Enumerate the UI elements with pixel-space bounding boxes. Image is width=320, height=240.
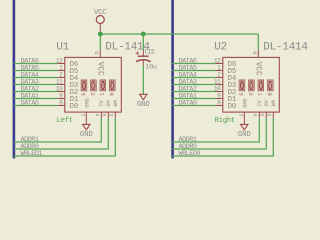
- pin WR (pin 3) of U2: [272, 112, 274, 118]
- svg-text:12: 12: [56, 58, 63, 65]
- svg-text:D0: D0: [70, 103, 79, 111]
- ground symbol under U1: [83, 124, 90, 129]
- pin A1 (pin 4) of U1: [100, 112, 102, 118]
- 14-segment display digit 2 of U2: [248, 80, 254, 92]
- svg-text:7: 7: [237, 113, 244, 116]
- frame border left bus line: [13, 0, 16, 158]
- wire net DATA5 to U2 pin 1: [172, 70, 216, 72]
- pin A0 (pin 5) of U1: [107, 112, 109, 118]
- 14-segment display digit 0 of U2: [267, 80, 273, 92]
- wire net DATA4 to U2 pin 2: [172, 77, 216, 79]
- 14-segment display digit 0 of U1: [109, 80, 115, 92]
- pin D2 (pin 10) of U1: [58, 91, 65, 93]
- pin A1 (pin 4) of U2: [258, 112, 260, 118]
- wire net DATA6 to U2 pin 12: [172, 63, 216, 65]
- wire VCC net horizontal: [100, 33, 258, 35]
- svg-text:3: 3: [108, 113, 115, 116]
- svg-text:10: 10: [214, 86, 221, 93]
- VCC symbol pin: [99, 23, 101, 34]
- svg-text:Right: Right: [215, 117, 235, 125]
- frame border middle bus line: [171, 0, 174, 158]
- svg-text:3: 3: [266, 113, 273, 116]
- wire VCC net vertical to U1: [99, 34, 101, 50]
- wire net ADDR0 from U2 pin 5: [172, 118, 266, 149]
- svg-text:GND: GND: [83, 98, 90, 108]
- svg-text:11: 11: [56, 79, 63, 86]
- svg-text:WR: WR: [270, 100, 277, 107]
- svg-text:VCC: VCC: [96, 62, 105, 76]
- svg-text:12: 12: [214, 58, 221, 65]
- svg-text:Left: Left: [57, 117, 73, 125]
- svg-text:A1: A1: [98, 100, 105, 107]
- svg-text:7: 7: [79, 113, 86, 116]
- svg-text:VCC: VCC: [254, 62, 263, 76]
- ground symbol below C15: [140, 94, 147, 100]
- wire net DATA4 to U1 pin 2: [14, 77, 58, 79]
- pin D4 (pin 2) of U1: [58, 77, 65, 79]
- svg-text:DL-1414: DL-1414: [105, 41, 150, 53]
- 14-segment display digit 2 of U1: [90, 80, 96, 92]
- wire net DATA5 to U1 pin 1: [14, 70, 58, 72]
- pin D6 (pin 12) of U2: [216, 63, 223, 65]
- svg-text:11: 11: [214, 79, 221, 86]
- 14-segment display digit 1 of U2: [258, 80, 264, 92]
- svg-text:GND: GND: [137, 101, 151, 109]
- svg-text:5: 5: [101, 113, 108, 116]
- svg-text:GND: GND: [238, 131, 252, 139]
- pin A0 (pin 5) of U2: [265, 112, 267, 118]
- capacitor C15 (polarized 10u): [136, 50, 151, 66]
- pin GND (pin 7) of U2: [243, 112, 245, 124]
- svg-text:3: 3: [238, 93, 244, 96]
- svg-text:1: 1: [98, 93, 104, 96]
- pin D4 (pin 2) of U2: [216, 77, 223, 79]
- pin VCC (pin 6) of U1: [99, 50, 101, 58]
- pin D0 (pin 8) of U2: [216, 105, 223, 107]
- pin WR (pin 3) of U1: [114, 112, 116, 118]
- pin D3 (pin 11) of U1: [58, 84, 65, 86]
- svg-text:0: 0: [108, 93, 114, 96]
- pin D5 (pin 1) of U1: [58, 70, 65, 72]
- svg-text:A0: A0: [263, 100, 270, 107]
- pin D1 (pin 9) of U1: [58, 98, 65, 100]
- pin VCC (pin 6) of U2: [257, 50, 259, 58]
- 14-segment display digit 3 of U2: [239, 80, 245, 92]
- wire net ADDR0 from U1 pin 5: [14, 118, 108, 149]
- wire net ADDR1 from U2 pin 4: [172, 118, 259, 142]
- 14-segment display digit 1 of U1: [100, 80, 106, 92]
- wire net WRLED1 from U1 pin 3: [14, 118, 115, 156]
- wire net DATA3 to U1 pin 11: [14, 84, 58, 86]
- pin D0 (pin 8) of U1: [58, 105, 65, 107]
- svg-text:DL-1414: DL-1414: [263, 41, 308, 53]
- ground symbol under U2: [241, 124, 248, 129]
- wire VCC net vertical to U2: [257, 34, 259, 50]
- svg-text:U2: U2: [214, 41, 227, 53]
- pin D6 (pin 12) of U1: [58, 63, 65, 65]
- svg-text:1: 1: [256, 93, 262, 96]
- pin D1 (pin 9) of U2: [216, 98, 223, 100]
- IC U1 DL-1414 body: [65, 57, 122, 112]
- svg-text:DATA0: DATA0: [179, 100, 197, 108]
- svg-text:GND: GND: [80, 131, 94, 139]
- wire net DATA0 to U1 pin 8: [14, 105, 58, 107]
- svg-text:WRLED1: WRLED1: [21, 150, 43, 158]
- pin D2 (pin 10) of U2: [216, 91, 223, 93]
- svg-text:10u: 10u: [145, 63, 157, 71]
- VCC supply symbol: [96, 16, 104, 24]
- IC U2 DL-1414 body: [223, 57, 279, 112]
- wire net DATA1 to U1 pin 9: [14, 98, 58, 100]
- wire net DATA0 to U2 pin 8: [172, 105, 216, 107]
- wire net DATA2 to U2 pin 10: [172, 91, 216, 93]
- svg-text:6: 6: [251, 51, 258, 54]
- svg-text:A0: A0: [105, 100, 112, 107]
- svg-text:2: 2: [89, 93, 95, 96]
- wire net ADDR1 from U1 pin 4: [14, 118, 101, 142]
- pin D5 (pin 1) of U2: [216, 70, 223, 72]
- wire net WRLED0 from U2 pin 3: [172, 118, 273, 156]
- svg-text:WRLED0: WRLED0: [179, 150, 201, 158]
- pin GND (pin 7) of U1: [85, 112, 87, 124]
- pin D3 (pin 11) of U2: [216, 84, 223, 86]
- svg-text:2: 2: [247, 93, 253, 96]
- svg-text:D0: D0: [228, 103, 237, 111]
- wire capacitor C15 to ground: [142, 66, 144, 95]
- svg-text:A1: A1: [256, 100, 263, 107]
- svg-text:WR: WR: [112, 100, 119, 107]
- svg-text:U1: U1: [56, 41, 69, 53]
- svg-text:DATA0: DATA0: [21, 100, 39, 108]
- junction at VCC symbol: [98, 32, 103, 37]
- wire net DATA1 to U2 pin 9: [172, 98, 216, 100]
- svg-text:VCC: VCC: [94, 9, 108, 17]
- wire net DATA2 to U1 pin 10: [14, 91, 58, 93]
- svg-text:GND: GND: [241, 98, 248, 108]
- wire net DATA6 to U1 pin 12: [14, 63, 58, 65]
- junction at capacitor branch: [141, 32, 146, 37]
- svg-text:3: 3: [80, 93, 86, 96]
- 14-segment display digit 3 of U1: [81, 80, 87, 92]
- svg-text:5: 5: [259, 113, 266, 116]
- svg-text:6: 6: [93, 51, 100, 54]
- wire net DATA3 to U2 pin 11: [172, 84, 216, 86]
- svg-text:10: 10: [56, 86, 63, 93]
- svg-text:0: 0: [266, 93, 272, 96]
- wire VCC net to capacitor C15: [142, 34, 144, 50]
